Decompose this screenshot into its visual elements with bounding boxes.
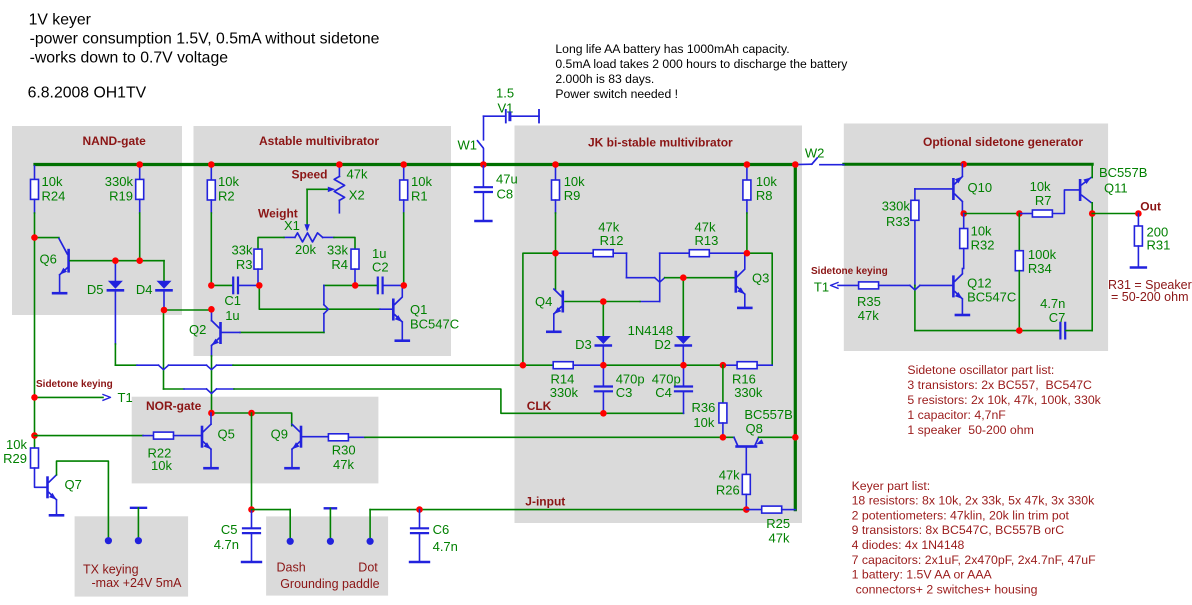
svg-text:R8: R8 xyxy=(756,188,773,203)
svg-text:2 potentiometers: 47klin, 20k: 2 potentiometers: 47klin, 20k lin trim p… xyxy=(852,508,1070,522)
ground Q12 xyxy=(956,314,969,317)
svg-text:10k: 10k xyxy=(151,458,172,473)
resistor R25 47k xyxy=(746,509,761,511)
svg-text:Power switch needed !: Power switch needed ! xyxy=(555,87,678,101)
resistor R13 47k xyxy=(660,252,690,254)
svg-text:BC547C: BC547C xyxy=(410,317,459,332)
wire JK left loop xyxy=(523,253,556,365)
svg-text:10k: 10k xyxy=(411,174,432,189)
node NOR Q5 collector xyxy=(208,410,215,417)
svg-text:C4: C4 xyxy=(655,385,672,400)
resistor R3 xyxy=(254,249,262,269)
wire Q11 emitter to out xyxy=(1091,203,1093,214)
wire J-input xyxy=(370,509,746,511)
resistor R16 330k xyxy=(723,364,737,366)
svg-text:T1: T1 xyxy=(118,390,133,405)
svg-text:10k: 10k xyxy=(218,174,239,189)
node R3 bottom xyxy=(256,282,263,289)
node R4 bottom xyxy=(352,282,359,289)
svg-text:R33: R33 xyxy=(886,214,910,229)
svg-text:7 capacitors: 2x1uF, 2x470pF,: 7 capacitors: 2x1uF, 2x470pF, 2x4.7nF, 4… xyxy=(852,553,1097,567)
resistor R22 10k xyxy=(35,435,144,437)
svg-text:BC547C: BC547C xyxy=(967,290,1016,305)
svg-text:D4: D4 xyxy=(136,282,153,297)
sidetone generator V+ thick wire xyxy=(844,163,1092,166)
diode D4 xyxy=(157,281,172,289)
svg-text:J-input: J-input xyxy=(525,495,565,509)
svg-text:R34: R34 xyxy=(1028,261,1052,276)
transistor Q3 xyxy=(735,271,738,293)
svg-text:R13: R13 xyxy=(695,233,719,248)
svg-text:3 transistors: 2x BC557, BC54: 3 transistors: 2x BC557, BC547C xyxy=(907,378,1092,392)
capacitor C2 xyxy=(355,284,377,286)
resistor R19 xyxy=(139,166,141,179)
svg-text:R26: R26 xyxy=(716,483,740,498)
svg-text:R29: R29 xyxy=(3,451,27,466)
wire JK bottom wire xyxy=(523,364,553,366)
node Q8 rail xyxy=(792,434,799,441)
wire R4 bottom xyxy=(354,269,356,285)
svg-text:10k: 10k xyxy=(971,224,992,239)
resistor R14 330k xyxy=(553,362,573,369)
resistor R33 330k xyxy=(911,200,919,220)
svg-text:R31: R31 xyxy=(1147,238,1171,253)
svg-text:1u: 1u xyxy=(225,308,239,323)
svg-text:Speed: Speed xyxy=(292,168,328,182)
node Q3 base D2 xyxy=(680,274,687,281)
node R1 bottom Q1 collector xyxy=(401,282,408,289)
block box Astable multivibrator xyxy=(194,126,452,356)
wire R33 bottom to oscillator bottom with hop xyxy=(914,220,916,285)
svg-text:C5: C5 xyxy=(221,522,238,537)
ground Q1 xyxy=(396,339,409,342)
wire T1 output left xyxy=(35,396,104,398)
svg-text:5 resistors: 2x 10k, 47k, 100k: 5 resistors: 2x 10k, 47k, 100k, 330k xyxy=(907,393,1101,407)
wire bottom wire mid xyxy=(603,364,723,366)
resistor R35 47k xyxy=(859,282,879,289)
wire Q7 collector to TX terminal xyxy=(57,461,109,541)
svg-text:R1: R1 xyxy=(411,189,428,204)
wire R7 right to Q11 base xyxy=(1052,190,1078,214)
wire R13 left cross-couple to Q4 base xyxy=(659,253,661,301)
wire Q1 collector xyxy=(401,285,403,295)
svg-text:X1: X1 xyxy=(284,218,300,233)
resistor R12 47k xyxy=(556,252,594,254)
wire NOR output down to paddle xyxy=(251,413,253,510)
svg-text:R19: R19 xyxy=(109,189,133,204)
wire JK right loop xyxy=(747,253,772,365)
transistor Q11 BC557B xyxy=(1079,179,1082,201)
wire D4 node to Q2 collector node xyxy=(164,309,211,311)
ground Q6 xyxy=(53,292,66,295)
wire oscillator right loop xyxy=(1091,214,1093,331)
svg-text:X2: X2 xyxy=(349,188,365,203)
svg-text:1V keyer: 1V keyer xyxy=(29,12,91,29)
resistor R26 47k xyxy=(742,474,750,494)
svg-text:47k: 47k xyxy=(858,308,879,323)
terminal TX keying 2 with cap xyxy=(131,507,146,509)
wire R4 node cross-couple to Q2 base with hop xyxy=(324,284,355,286)
svg-text:1N4148: 1N4148 xyxy=(628,323,674,338)
wire Q8 base down xyxy=(745,448,747,475)
svg-text:Astable multivibrator: Astable multivibrator xyxy=(259,134,379,148)
wire Q12 emitter to ground xyxy=(961,299,963,314)
svg-text:Q7: Q7 xyxy=(65,477,82,492)
capacitor C8 47u xyxy=(482,166,484,187)
svg-text:Optional sidetone generator: Optional sidetone generator xyxy=(923,135,1083,149)
transistor Q10 xyxy=(952,178,955,200)
node W1 on rail xyxy=(480,161,487,168)
wire Q8 emitter to rail xyxy=(759,436,796,438)
terminal Dot xyxy=(367,538,374,545)
svg-text:JK bi-stable multivibrator: JK bi-stable multivibrator xyxy=(588,136,733,150)
svg-text:Q2: Q2 xyxy=(189,322,206,337)
transistor Q1 xyxy=(392,299,395,321)
svg-text:BC557B: BC557B xyxy=(744,407,792,422)
resistor R4 xyxy=(351,249,359,269)
node Q11 out xyxy=(1089,210,1096,217)
wire Q9 emitter to ground xyxy=(291,449,293,467)
svg-text:1 capacitor: 4,7nF: 1 capacitor: 4,7nF xyxy=(907,408,1006,422)
svg-text:R32: R32 xyxy=(971,238,995,253)
svg-text:47k: 47k xyxy=(769,531,790,546)
wire R8 bottom xyxy=(746,200,748,213)
node NOR output xyxy=(248,410,255,417)
node C5 dash xyxy=(248,506,255,513)
svg-text:R25: R25 xyxy=(766,516,790,531)
svg-text:10k: 10k xyxy=(693,415,714,430)
node rail R2 xyxy=(208,161,215,168)
svg-text:Q6: Q6 xyxy=(40,252,57,267)
diode D3 xyxy=(602,302,604,337)
block box Optional sidetone generator xyxy=(844,124,1108,352)
ground Q9 xyxy=(286,467,299,470)
svg-text:10k: 10k xyxy=(1030,179,1051,194)
capacitor C1 xyxy=(211,284,232,286)
node R36 top xyxy=(720,362,727,369)
wire CLK long wire xyxy=(164,388,185,390)
wire Q1 emitter to ground xyxy=(401,322,403,339)
svg-text:BC557B: BC557B xyxy=(1099,165,1147,180)
wire Q10 collector xyxy=(961,164,963,176)
svg-text:R36: R36 xyxy=(692,400,716,415)
node D4 cathode xyxy=(161,307,168,314)
block box Grounding paddle xyxy=(266,516,388,595)
transistor Q7 xyxy=(46,476,49,498)
svg-text:330k: 330k xyxy=(105,174,134,189)
svg-text:Q3: Q3 xyxy=(752,271,769,286)
resistor R2 xyxy=(210,166,212,180)
node rail R19 xyxy=(136,161,143,168)
node D3 C3 xyxy=(600,362,607,369)
svg-text:Q5: Q5 xyxy=(218,427,235,442)
block box NOR-gate xyxy=(132,397,379,484)
svg-text:R24: R24 xyxy=(42,189,66,204)
svg-text:D3: D3 xyxy=(575,337,592,352)
ground R31 xyxy=(1131,266,1146,268)
transistor Q6 xyxy=(35,237,59,239)
transistor Q9 xyxy=(300,426,303,448)
node R36 bottom Q8 xyxy=(720,434,727,441)
diode D2 xyxy=(682,278,684,336)
wire Q10 emitter bus xyxy=(964,213,1020,215)
node rail R8 xyxy=(744,161,751,168)
capacitor C7 4.7n xyxy=(1059,323,1061,339)
wire Q6 base node xyxy=(70,260,164,262)
wire D5 cathode down to NOR input wire xyxy=(114,292,116,345)
wire R19 bottom lead xyxy=(139,199,141,213)
svg-text:47k: 47k xyxy=(347,167,368,182)
wire Q11 collector to rail end xyxy=(1091,164,1093,177)
node Q6 collector xyxy=(31,234,38,241)
wire Q7 emitter to ground xyxy=(56,500,58,514)
svg-text:18 resistors: 8x 10k, 2x 33k,: 18 resistors: 8x 10k, 2x 33k, 5x 47k, 3x… xyxy=(852,494,1095,508)
svg-text:47k: 47k xyxy=(719,468,740,483)
svg-text:R4: R4 xyxy=(331,257,348,272)
svg-text:Grounding paddle: Grounding paddle xyxy=(280,577,379,591)
svg-text:C3: C3 xyxy=(616,385,633,400)
node R26 bottom xyxy=(743,506,750,513)
node rail X2 xyxy=(336,161,343,168)
ground Q7 xyxy=(50,514,63,517)
wire Q10 emitter xyxy=(961,202,963,214)
svg-text:R2: R2 xyxy=(218,189,235,204)
wire X2 wiper down to X1 wiper xyxy=(306,189,308,224)
resistor R30 47k xyxy=(302,436,328,438)
wire R2 bottom lead xyxy=(210,200,212,213)
svg-text:W1: W1 xyxy=(458,138,478,153)
wire Q5 emitter to ground xyxy=(210,449,212,467)
capacitor C4 470p xyxy=(683,365,685,386)
svg-text:C6: C6 xyxy=(433,522,450,537)
transistor Q8 BC557B rotated xyxy=(734,437,738,445)
node W2 rail corner xyxy=(792,161,799,168)
wire R9 bottom xyxy=(555,200,557,213)
svg-text:10k: 10k xyxy=(756,174,777,189)
svg-text:Q9: Q9 xyxy=(271,427,288,442)
svg-text:D2: D2 xyxy=(654,337,671,352)
svg-text:4 diodes: 4x 1N4148: 4 diodes: 4x 1N4148 xyxy=(852,538,965,552)
potentiometer X2 47k xyxy=(338,165,340,177)
ground Q3 xyxy=(738,307,751,310)
power rail V+ thick wire xyxy=(35,165,795,510)
block box TX keying xyxy=(75,516,189,596)
node R34 top xyxy=(1016,210,1023,217)
wire X2 wiper xyxy=(307,188,327,190)
node R8 bottom Q3 collector xyxy=(744,250,751,257)
node R32 top xyxy=(960,210,967,217)
svg-text:4.7n: 4.7n xyxy=(1040,296,1065,311)
svg-text:10k: 10k xyxy=(564,174,585,189)
arrow T1 left xyxy=(103,395,111,401)
capacitor C6 4.7n xyxy=(416,506,423,513)
wire Q12 collector xyxy=(961,269,963,274)
svg-text:R9: R9 xyxy=(564,188,581,203)
wire R35 right to Q12 base with hop xyxy=(879,284,910,286)
svg-text:Q4: Q4 xyxy=(535,294,552,309)
wire R29 bottom to Q7 base xyxy=(35,468,47,487)
node D5 anode xyxy=(112,257,119,264)
svg-text:2.000h is 83 days.: 2.000h is 83 days. xyxy=(555,72,654,86)
block box NAND-gate xyxy=(12,126,182,315)
node R19 bottom xyxy=(136,257,143,264)
svg-text:D5: D5 xyxy=(87,282,104,297)
capacitor C5 4.7n xyxy=(251,510,253,528)
wire NOR collector bus xyxy=(211,413,291,426)
transistor Q4 xyxy=(562,291,565,313)
resistor R8 xyxy=(746,166,748,180)
wire X1 left lead to R3 xyxy=(284,236,295,238)
node R22 tap xyxy=(31,432,38,439)
resistor R9 xyxy=(555,166,557,180)
terminal TX keying 1 xyxy=(105,537,112,544)
terminal paddle common with cap xyxy=(325,507,336,509)
svg-text:330k: 330k xyxy=(550,385,579,400)
svg-text:9 transistors: 8x BC547C, BC55: 9 transistors: 8x BC547C, BC557B orC xyxy=(852,523,1065,537)
svg-text:47k: 47k xyxy=(333,457,354,472)
node rail R9 xyxy=(552,161,559,168)
potentiometer X1 20k xyxy=(295,233,323,242)
svg-text:6.8.2008 OH1TV: 6.8.2008 OH1TV xyxy=(28,85,147,102)
svg-text:10k: 10k xyxy=(6,437,27,452)
wire R30 output to Q8 xyxy=(348,436,365,438)
svg-text:Sidetone keying: Sidetone keying xyxy=(811,266,888,277)
resistor R34 100k xyxy=(1018,214,1020,251)
node JK left corner xyxy=(520,362,527,369)
wire Q3 emitter to ground xyxy=(744,294,746,306)
transistor Q12 xyxy=(952,275,955,297)
wire NOR input long wire xyxy=(115,364,137,366)
svg-text:Long life AA battery has 1000m: Long life AA battery has 1000mAh capacit… xyxy=(555,42,789,56)
svg-text:CLK: CLK xyxy=(527,399,552,413)
svg-text:47u: 47u xyxy=(496,172,518,187)
transistor Q5 xyxy=(201,426,204,448)
svg-text:R7: R7 xyxy=(1035,193,1052,208)
wire Q4 collector from R9 node xyxy=(555,253,557,289)
node D2 C4 xyxy=(680,362,687,369)
capacitor C3 470p xyxy=(602,365,604,386)
node rail R1 xyxy=(400,161,407,168)
wire R3 bottom xyxy=(257,269,259,285)
svg-text:330k: 330k xyxy=(882,199,911,214)
wire Q2 emitter down to NOR gate with hops xyxy=(211,346,213,356)
wire Out xyxy=(1092,213,1138,215)
svg-text:Q12: Q12 xyxy=(967,276,992,291)
svg-text:Out: Out xyxy=(1140,200,1161,214)
svg-text:Dash: Dash xyxy=(277,561,306,575)
terminal Dash xyxy=(287,538,294,545)
node Q4 base D3 xyxy=(600,298,607,305)
svg-text:= 50-200 ohm: = 50-200 ohm xyxy=(1111,290,1188,304)
svg-text:Sidetone keying: Sidetone keying xyxy=(36,379,113,390)
svg-text:Q10: Q10 xyxy=(968,180,993,195)
svg-text:-works down to 0.7V voltage: -works down to 0.7V voltage xyxy=(30,50,229,67)
svg-text:C8: C8 xyxy=(497,187,514,202)
resistor R24 xyxy=(34,166,36,179)
node R31 top xyxy=(1135,210,1142,217)
ground Q4 xyxy=(547,330,560,333)
wire R1 bottom lead xyxy=(403,200,405,213)
svg-text:Keyer part list:: Keyer part list: xyxy=(852,479,931,493)
svg-text:1 battery: 1.5V AA or AAA: 1 battery: 1.5V AA or AAA xyxy=(852,568,993,582)
svg-text:-max +24V 5mA: -max +24V 5mA xyxy=(92,576,183,590)
node R34 bottom xyxy=(1016,327,1023,334)
svg-text:1.5: 1.5 xyxy=(496,86,514,101)
svg-text:0.5mA load takes 2 000 hours t: 0.5mA load takes 2 000 hours to discharg… xyxy=(555,57,848,71)
svg-text:R3: R3 xyxy=(236,257,253,272)
node T1 tap xyxy=(31,394,38,401)
svg-text:C7: C7 xyxy=(1049,310,1066,325)
svg-text:4.7n: 4.7n xyxy=(214,537,239,552)
svg-text:4.7n: 4.7n xyxy=(433,539,458,554)
wire Q2 collector xyxy=(211,309,213,320)
node Q10 collector rail xyxy=(960,161,967,168)
svg-text:33k: 33k xyxy=(232,243,253,258)
transistor Q2 xyxy=(219,322,222,344)
svg-text:20k: 20k xyxy=(295,242,316,257)
wire R3 node to Q1 base xyxy=(259,285,380,309)
svg-text:-power consumption 1.5V, 0.5mA: -power consumption 1.5V, 0.5mA without s… xyxy=(30,31,380,48)
svg-text:R12: R12 xyxy=(600,233,624,248)
svg-text:C2: C2 xyxy=(372,260,389,275)
wire R24 bottom to sidetone keying column xyxy=(34,199,36,213)
ground Q5 xyxy=(205,467,218,470)
svg-text:Q11: Q11 xyxy=(1104,181,1128,196)
svg-text:10k: 10k xyxy=(42,174,63,189)
svg-text:R35: R35 xyxy=(857,294,881,309)
svg-text:T1: T1 xyxy=(814,280,829,295)
node C3 CLK xyxy=(600,410,607,417)
resistor R29 xyxy=(31,448,39,468)
node Q2 collector xyxy=(208,306,215,313)
svg-text:Q1: Q1 xyxy=(410,302,427,317)
wire X1 right lead to R4 xyxy=(323,236,334,238)
svg-text:TX keying: TX keying xyxy=(83,563,139,577)
svg-text:Q8: Q8 xyxy=(746,421,763,436)
svg-text:100k: 100k xyxy=(1028,247,1057,262)
resistor R7 10k xyxy=(1019,213,1032,215)
svg-text:C1: C1 xyxy=(224,293,241,308)
wire dash terminal xyxy=(252,509,291,511)
wire R12 right to Q3 base with hop xyxy=(613,252,626,254)
node R9 bottom xyxy=(552,250,559,257)
svg-text:Dot: Dot xyxy=(358,561,378,575)
resistor R32 10k xyxy=(963,214,965,229)
wire Q5 collector xyxy=(210,413,212,424)
wire Q3 collector xyxy=(744,253,746,268)
wire dot terminal xyxy=(369,510,371,542)
svg-text:1 speaker 50-200 ohm: 1 speaker 50-200 ohm xyxy=(907,423,1033,437)
wire D4 cathode to node xyxy=(163,292,165,311)
svg-text:connectors+ 2 switches+ housin: connectors+ 2 switches+ housing xyxy=(856,582,1038,596)
block box JK bi-stable multivibrator xyxy=(515,126,803,524)
svg-text:Sidetone oscillator part list:: Sidetone oscillator part list: xyxy=(907,363,1054,377)
svg-text:R30: R30 xyxy=(332,443,356,458)
resistor R1 xyxy=(403,166,405,180)
resistor R31 200 xyxy=(1137,214,1139,227)
wire Q4 emitter to ground xyxy=(553,314,555,331)
wire oscillator bottom xyxy=(915,330,1060,332)
wire D4 node down to CLK wire xyxy=(163,310,165,389)
svg-text:33k: 33k xyxy=(327,243,348,258)
resistor R36 10k xyxy=(722,365,724,403)
wire Q10 base to R33 xyxy=(915,188,952,190)
svg-text:NOR-gate: NOR-gate xyxy=(146,399,202,413)
diode D5 xyxy=(114,261,116,281)
svg-text:NAND-gate: NAND-gate xyxy=(83,134,147,148)
wire Q6 emitter to ground xyxy=(59,275,61,292)
node R2 bottom C1 left xyxy=(208,282,215,289)
